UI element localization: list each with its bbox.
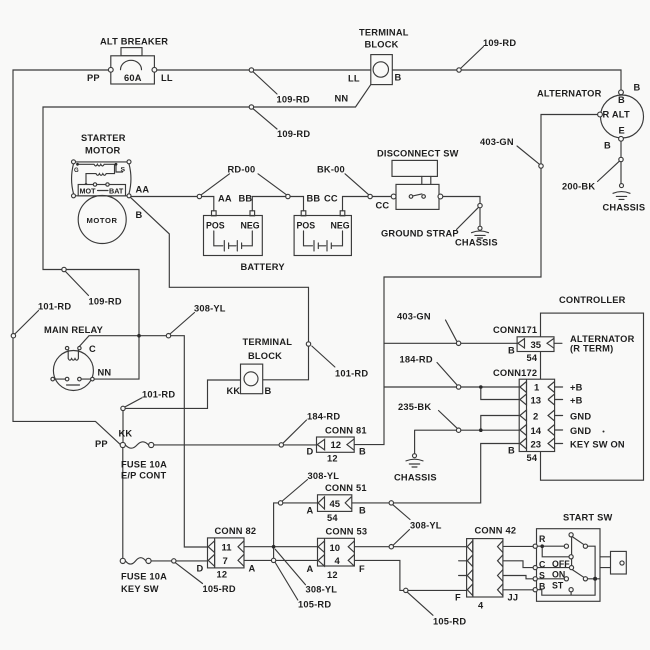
svg-text:R ALT: R ALT (603, 110, 630, 120)
svg-text:GND: GND (570, 412, 591, 422)
terminal block KK box (241, 364, 263, 394)
wire 105-RD CONN 53 pin 4 to CONN 42 F (354, 560, 466, 590)
callout leader 105-RD fuse KEY SW (175, 563, 202, 584)
start switch left terminals (533, 544, 537, 592)
svg-text:BB: BB (307, 194, 321, 204)
controller box (541, 313, 644, 480)
svg-text:A: A (307, 564, 314, 574)
svg-text:RD-00: RD-00 (228, 165, 256, 175)
svg-text:B: B (539, 582, 545, 592)
svg-text:BK-00: BK-00 (317, 165, 345, 175)
battery 1 NEG stud (250, 211, 255, 216)
svg-text:+B: +B (570, 396, 583, 406)
wire CONN 42 to start switch R (503, 545, 535, 547)
alt breaker terminal LL (152, 67, 157, 72)
starter solenoid S stub (116, 164, 123, 172)
svg-text:11: 11 (222, 543, 233, 554)
svg-text:4: 4 (335, 556, 341, 567)
alt breaker body 60A (111, 56, 155, 84)
callout leader 308-YL right of CONN 53 upper (393, 505, 410, 520)
svg-text:(R TERM): (R TERM) (570, 344, 613, 354)
svg-text:PP: PP (87, 73, 100, 83)
svg-text:AA: AA (136, 185, 150, 195)
callout leader 235-BK (439, 411, 458, 429)
svg-text:NEG: NEG (331, 221, 350, 231)
wire 184-RD branch to CONN172 pin 1 (384, 386, 519, 388)
svg-text:184-RD: 184-RD (307, 412, 340, 422)
callout leader 101-RD left edge (15, 311, 39, 335)
main relay NN junction dot (137, 334, 141, 338)
svg-text:23: 23 (531, 440, 542, 451)
wire 109-RD NN from terminal block to main relay NN (43, 85, 371, 380)
svg-text:B: B (508, 346, 515, 356)
svg-text:101-RD: 101-RD (142, 390, 175, 400)
wire stub CONN 42 row 2 (459, 560, 467, 562)
alternator terminal E bottom (619, 136, 624, 141)
svg-text:12: 12 (327, 454, 338, 464)
svg-text:12: 12 (217, 570, 228, 580)
start switch plug box (611, 551, 627, 574)
wire 109-RD from breaker PP left and down to fuse PP (13, 70, 120, 445)
callout leader 308-YL near CONN 51 (282, 480, 307, 502)
callout leader 105-RD near CONN 42 F (407, 592, 433, 615)
svg-text:+B: +B (570, 383, 583, 393)
svg-text:B: B (508, 446, 515, 456)
start switch box (537, 529, 601, 602)
callout leader 101-RD near fuse KK (125, 398, 142, 407)
svg-text:F: F (455, 593, 461, 603)
battery 2 POS stud (301, 211, 306, 216)
svg-text:BATTERY: BATTERY (241, 262, 286, 272)
disconnect switch handle (392, 160, 437, 176)
svg-text:35: 35 (531, 340, 542, 351)
wire 308-YL main relay C to CONN 82 pin 11 (79, 336, 207, 547)
battery 2 box (294, 216, 351, 256)
svg-text:MOTOR: MOTOR (87, 216, 118, 225)
svg-text:KEY SW: KEY SW (121, 584, 159, 594)
svg-text:GND: GND (570, 426, 591, 436)
starter contact studs (93, 183, 109, 186)
svg-text:54: 54 (527, 353, 538, 363)
wire 308-YL CONN 53 pin 10 to CONN 42 (354, 546, 466, 548)
main relay circle (53, 351, 93, 391)
terminal block top circle (373, 62, 388, 77)
svg-text:B: B (604, 141, 611, 151)
terminal block KK circle (244, 372, 258, 386)
battery 1 POS stud (212, 211, 217, 216)
starter motor circle (78, 196, 126, 244)
svg-text:MOTOR: MOTOR (85, 146, 121, 156)
svg-text:ALTERNATOR: ALTERNATOR (570, 334, 635, 344)
svg-text:G: G (74, 168, 79, 174)
svg-text:CONN 53: CONN 53 (326, 527, 368, 537)
starter solenoid body (72, 160, 132, 198)
CONN171 box (517, 337, 562, 352)
wire fuse PP link vertical (122, 448, 124, 559)
svg-text:TERMINAL: TERMINAL (243, 337, 293, 347)
svg-text:12: 12 (331, 440, 342, 451)
CONN 42 box (467, 539, 503, 597)
callout leader RD-00 right (258, 174, 287, 195)
terminal block top box (371, 55, 393, 85)
svg-text:BB: BB (239, 194, 253, 204)
wire marker circles (11, 68, 623, 593)
callout leader 109-RD top right (461, 47, 484, 69)
wire 308-YL CONN172 pin 23 KEY SW ON to CONN 51 B (352, 444, 519, 503)
callout leader GROUND STRAP (457, 207, 479, 229)
wire alternator E to chassis (620, 141, 622, 183)
disconnect switch body (396, 184, 439, 209)
svg-text:CC: CC (324, 194, 338, 204)
svg-text:B: B (359, 506, 366, 516)
svg-text:101-RD: 101-RD (38, 302, 71, 312)
wire 109-RD terminal block B to alternator B (392, 70, 621, 90)
callout leader 109-RD near main relay (66, 272, 89, 296)
svg-text:B: B (618, 95, 625, 105)
svg-text:AA: AA (218, 194, 232, 204)
svg-text:D: D (307, 447, 314, 457)
starter solenoid coil dots (76, 163, 117, 186)
wire RD-00 starter AA to battery 1 POS (131, 197, 214, 211)
start switch connector tab (600, 557, 611, 568)
svg-text:101-RD: 101-RD (335, 369, 368, 379)
svg-text:235-BK: 235-BK (398, 402, 431, 412)
wire bridge CONN172 pin 2 to pin 14 (481, 416, 519, 431)
svg-text:STARTER: STARTER (81, 133, 126, 143)
alternator chassis ground (613, 184, 630, 200)
svg-text:200-BK: 200-BK (562, 182, 595, 192)
svg-text:CONN 81: CONN 81 (325, 426, 367, 436)
wire CONN 42 to start switch B (503, 589, 535, 591)
svg-text:PP: PP (95, 439, 108, 449)
svg-text:DISCONNECT SW: DISCONNECT SW (377, 149, 459, 159)
svg-text:S: S (121, 167, 126, 174)
callout leader RD-00 left (201, 174, 229, 195)
callout leader 105-RD below CONN 82 (275, 563, 298, 601)
main relay coil (68, 350, 78, 360)
callout leader 308-YL right of CONN 53 lower (393, 530, 410, 546)
svg-text:NN: NN (98, 368, 112, 378)
svg-text:JJ: JJ (508, 593, 519, 603)
svg-text:BLOCK: BLOCK (248, 351, 282, 361)
svg-text:10: 10 (330, 543, 341, 554)
wire disconnect switch to ground strap chassis (443, 197, 480, 227)
svg-text:KK: KK (227, 386, 241, 396)
callout leader 184-RD near CONN 81 (283, 420, 307, 443)
CONN 81 box (317, 437, 355, 452)
svg-text:7: 7 (223, 556, 228, 567)
svg-text:C: C (89, 344, 96, 354)
wire bridge CONN172 pin 1 to pin 13 (481, 387, 519, 400)
callout leader BK-00 (345, 174, 369, 195)
svg-text:GROUND STRAP: GROUND STRAP (381, 229, 459, 239)
svg-text:109-RD: 109-RD (483, 38, 516, 48)
alt breaker element arc (121, 60, 142, 70)
alt breaker terminal PP (108, 67, 113, 72)
alternator circle (601, 95, 644, 138)
wire 403-GN alternator R to CONN171 and 184-RD down to CONN 81 B (354, 115, 598, 445)
wire 109-RD breaker LL to terminal block (157, 69, 371, 71)
svg-text:NEG: NEG (241, 221, 260, 231)
svg-text:ALT BREAKER: ALT BREAKER (100, 37, 168, 47)
CONN 53 box (318, 538, 355, 566)
CONN 82 box (208, 538, 245, 568)
svg-text:54: 54 (327, 513, 338, 523)
svg-text:C: C (539, 560, 546, 570)
svg-text:60A: 60A (124, 73, 142, 83)
alternator terminal R left (598, 112, 603, 117)
svg-text:BAT: BAT (109, 187, 124, 196)
svg-text:109-RD: 109-RD (89, 297, 122, 307)
svg-text:184-RD: 184-RD (400, 355, 433, 365)
battery 1 cells (214, 231, 253, 251)
svg-text:109-RD: 109-RD (277, 95, 310, 105)
svg-text:KK: KK (119, 429, 133, 439)
svg-text:105-RD: 105-RD (298, 600, 331, 610)
svg-text:CONN 82: CONN 82 (215, 526, 257, 536)
callout leader 184-RD near CONN172 pin 1 (437, 363, 457, 386)
ground strap chassis ground (472, 226, 489, 238)
svg-text:308-YL: 308-YL (308, 471, 340, 481)
svg-text:CONN172: CONN172 (493, 368, 537, 378)
svg-text:CONN171: CONN171 (493, 325, 537, 335)
svg-text:D: D (197, 564, 204, 574)
svg-text:109-RD: 109-RD (277, 129, 310, 139)
wire 403-GN branch to CONN171 pin 35 (384, 342, 517, 344)
svg-text:403-GN: 403-GN (397, 312, 431, 322)
svg-text:POS: POS (206, 221, 225, 231)
fuse 10A E/P CONT (120, 442, 154, 448)
svg-text:A: A (249, 564, 256, 574)
callout leader 101-RD near terminal block B (312, 346, 335, 367)
wire GND CONN172 pin 14 to chassis (415, 430, 520, 454)
disconnect switch terminals (391, 194, 443, 199)
main relay contacts (51, 377, 94, 385)
svg-text:2: 2 (533, 412, 538, 423)
svg-text:308-YL: 308-YL (306, 585, 338, 595)
svg-text:F: F (359, 564, 365, 574)
svg-text:S: S (539, 570, 545, 580)
wire 105-RD fuse KEY SW to CONN 82 D (151, 560, 207, 562)
wire 184-RD fuse E/P CONT to CONN 81 D (154, 444, 317, 446)
starter solenoid coil upper (78, 164, 117, 166)
wire 101-RD starter AA down to terminal block B (131, 198, 309, 380)
starter MOT-BAT contact box (78, 185, 125, 196)
svg-text:MAIN RELAY: MAIN RELAY (44, 325, 104, 335)
wire 308-YL CONN 51 A down to CONN 82/53 rows (274, 503, 318, 559)
svg-text:FUSE 10A: FUSE 10A (121, 572, 167, 582)
svg-text:ALTERNATOR: ALTERNATOR (537, 89, 602, 99)
callout leader 109-RD wire 1 (253, 72, 277, 95)
svg-text:TERMINAL: TERMINAL (359, 28, 409, 38)
svg-text:ON: ON (552, 570, 565, 580)
svg-text:CONN 51: CONN 51 (325, 483, 367, 493)
svg-text:FUSE 10A: FUSE 10A (121, 460, 167, 470)
svg-text:B: B (136, 210, 143, 220)
svg-text:OFF: OFF (552, 559, 570, 569)
svg-text:POS: POS (297, 221, 316, 231)
junction dots (272, 385, 483, 548)
alternator terminal B top (619, 90, 624, 95)
svg-text:ST: ST (552, 581, 564, 591)
callout leader 403-GN lower (446, 320, 457, 341)
wire CONN 42 to start switch C (503, 561, 535, 568)
svg-text:403-GN: 403-GN (480, 137, 514, 147)
svg-text:308-YL: 308-YL (194, 304, 226, 314)
alt breaker tab (121, 48, 142, 56)
CONN 51 box (318, 495, 352, 512)
svg-text:1: 1 (534, 383, 540, 394)
svg-text:START SW: START SW (563, 513, 612, 523)
battery 1 box (204, 216, 263, 256)
svg-text:A: A (307, 506, 314, 516)
disconnect switch stem (422, 176, 431, 184)
svg-text:B: B (265, 386, 272, 396)
svg-text:14: 14 (531, 426, 542, 437)
svg-text:B: B (634, 83, 641, 93)
svg-text:LL: LL (161, 73, 173, 83)
svg-text:KEY SW ON: KEY SW ON (570, 440, 625, 450)
wire 101-RD terminal block KK to fuse E/P CONT (123, 380, 241, 442)
svg-text:B: B (395, 73, 402, 83)
wire RD-00 battery 1 NEG to battery 2 POS (252, 197, 303, 211)
start switch internals (537, 533, 600, 596)
svg-text:45: 45 (330, 499, 341, 510)
svg-text:308-YL: 308-YL (410, 521, 442, 531)
svg-text:BLOCK: BLOCK (365, 40, 399, 50)
svg-text:R: R (539, 534, 546, 544)
CONN172 box (519, 379, 562, 451)
starter solenoid coil lower (86, 165, 115, 185)
svg-text:E/P CONT: E/P CONT (121, 471, 166, 481)
svg-text:105-RD: 105-RD (433, 617, 466, 627)
wire CONN 42 to start switch S (503, 576, 535, 579)
svg-text:B: B (359, 447, 366, 457)
svg-text:CONTROLLER: CONTROLLER (559, 295, 626, 305)
svg-text:105-RD: 105-RD (203, 584, 236, 594)
svg-text:12: 12 (327, 570, 338, 580)
wire stub CONN 42 row 3 (459, 575, 467, 577)
svg-text:CHASSIS: CHASSIS (455, 238, 498, 248)
wire 105-RD CONN 82 pin 7 to CONN 53 pin 4 (244, 559, 318, 561)
callout leader 403-GN upper (517, 146, 540, 164)
svg-text:CHASSIS: CHASSIS (603, 203, 646, 213)
svg-text:CHASSIS: CHASSIS (394, 473, 437, 483)
svg-text:LL: LL (348, 74, 360, 84)
wire CONN 82 pin 11 to CONN 53 pin 10 (244, 546, 318, 548)
svg-text:CC: CC (376, 201, 390, 211)
svg-text:CONN 42: CONN 42 (475, 526, 517, 536)
callout leader 109-RD wire NN (253, 109, 277, 130)
svg-text:NN: NN (335, 94, 349, 104)
svg-text:13: 13 (531, 396, 542, 407)
svg-text:E: E (619, 126, 625, 136)
callout leader 308-YL near CONN 82 (275, 549, 305, 585)
battery 2 NEG stud (340, 211, 345, 216)
main relay coil terminals (65, 346, 81, 349)
svg-text:54: 54 (527, 453, 538, 463)
svg-text:MOT: MOT (80, 187, 97, 196)
battery 2 cells (304, 231, 343, 251)
callout leader 200-BK (598, 161, 620, 181)
chassis ground 235-BK (406, 454, 423, 467)
fuse 10A KEY SW (120, 558, 151, 564)
wire BK-00 battery 2 NEG to disconnect switch (343, 197, 392, 211)
svg-text:4: 4 (478, 601, 484, 611)
callout leader 308-YL main relay C wire (170, 313, 195, 335)
